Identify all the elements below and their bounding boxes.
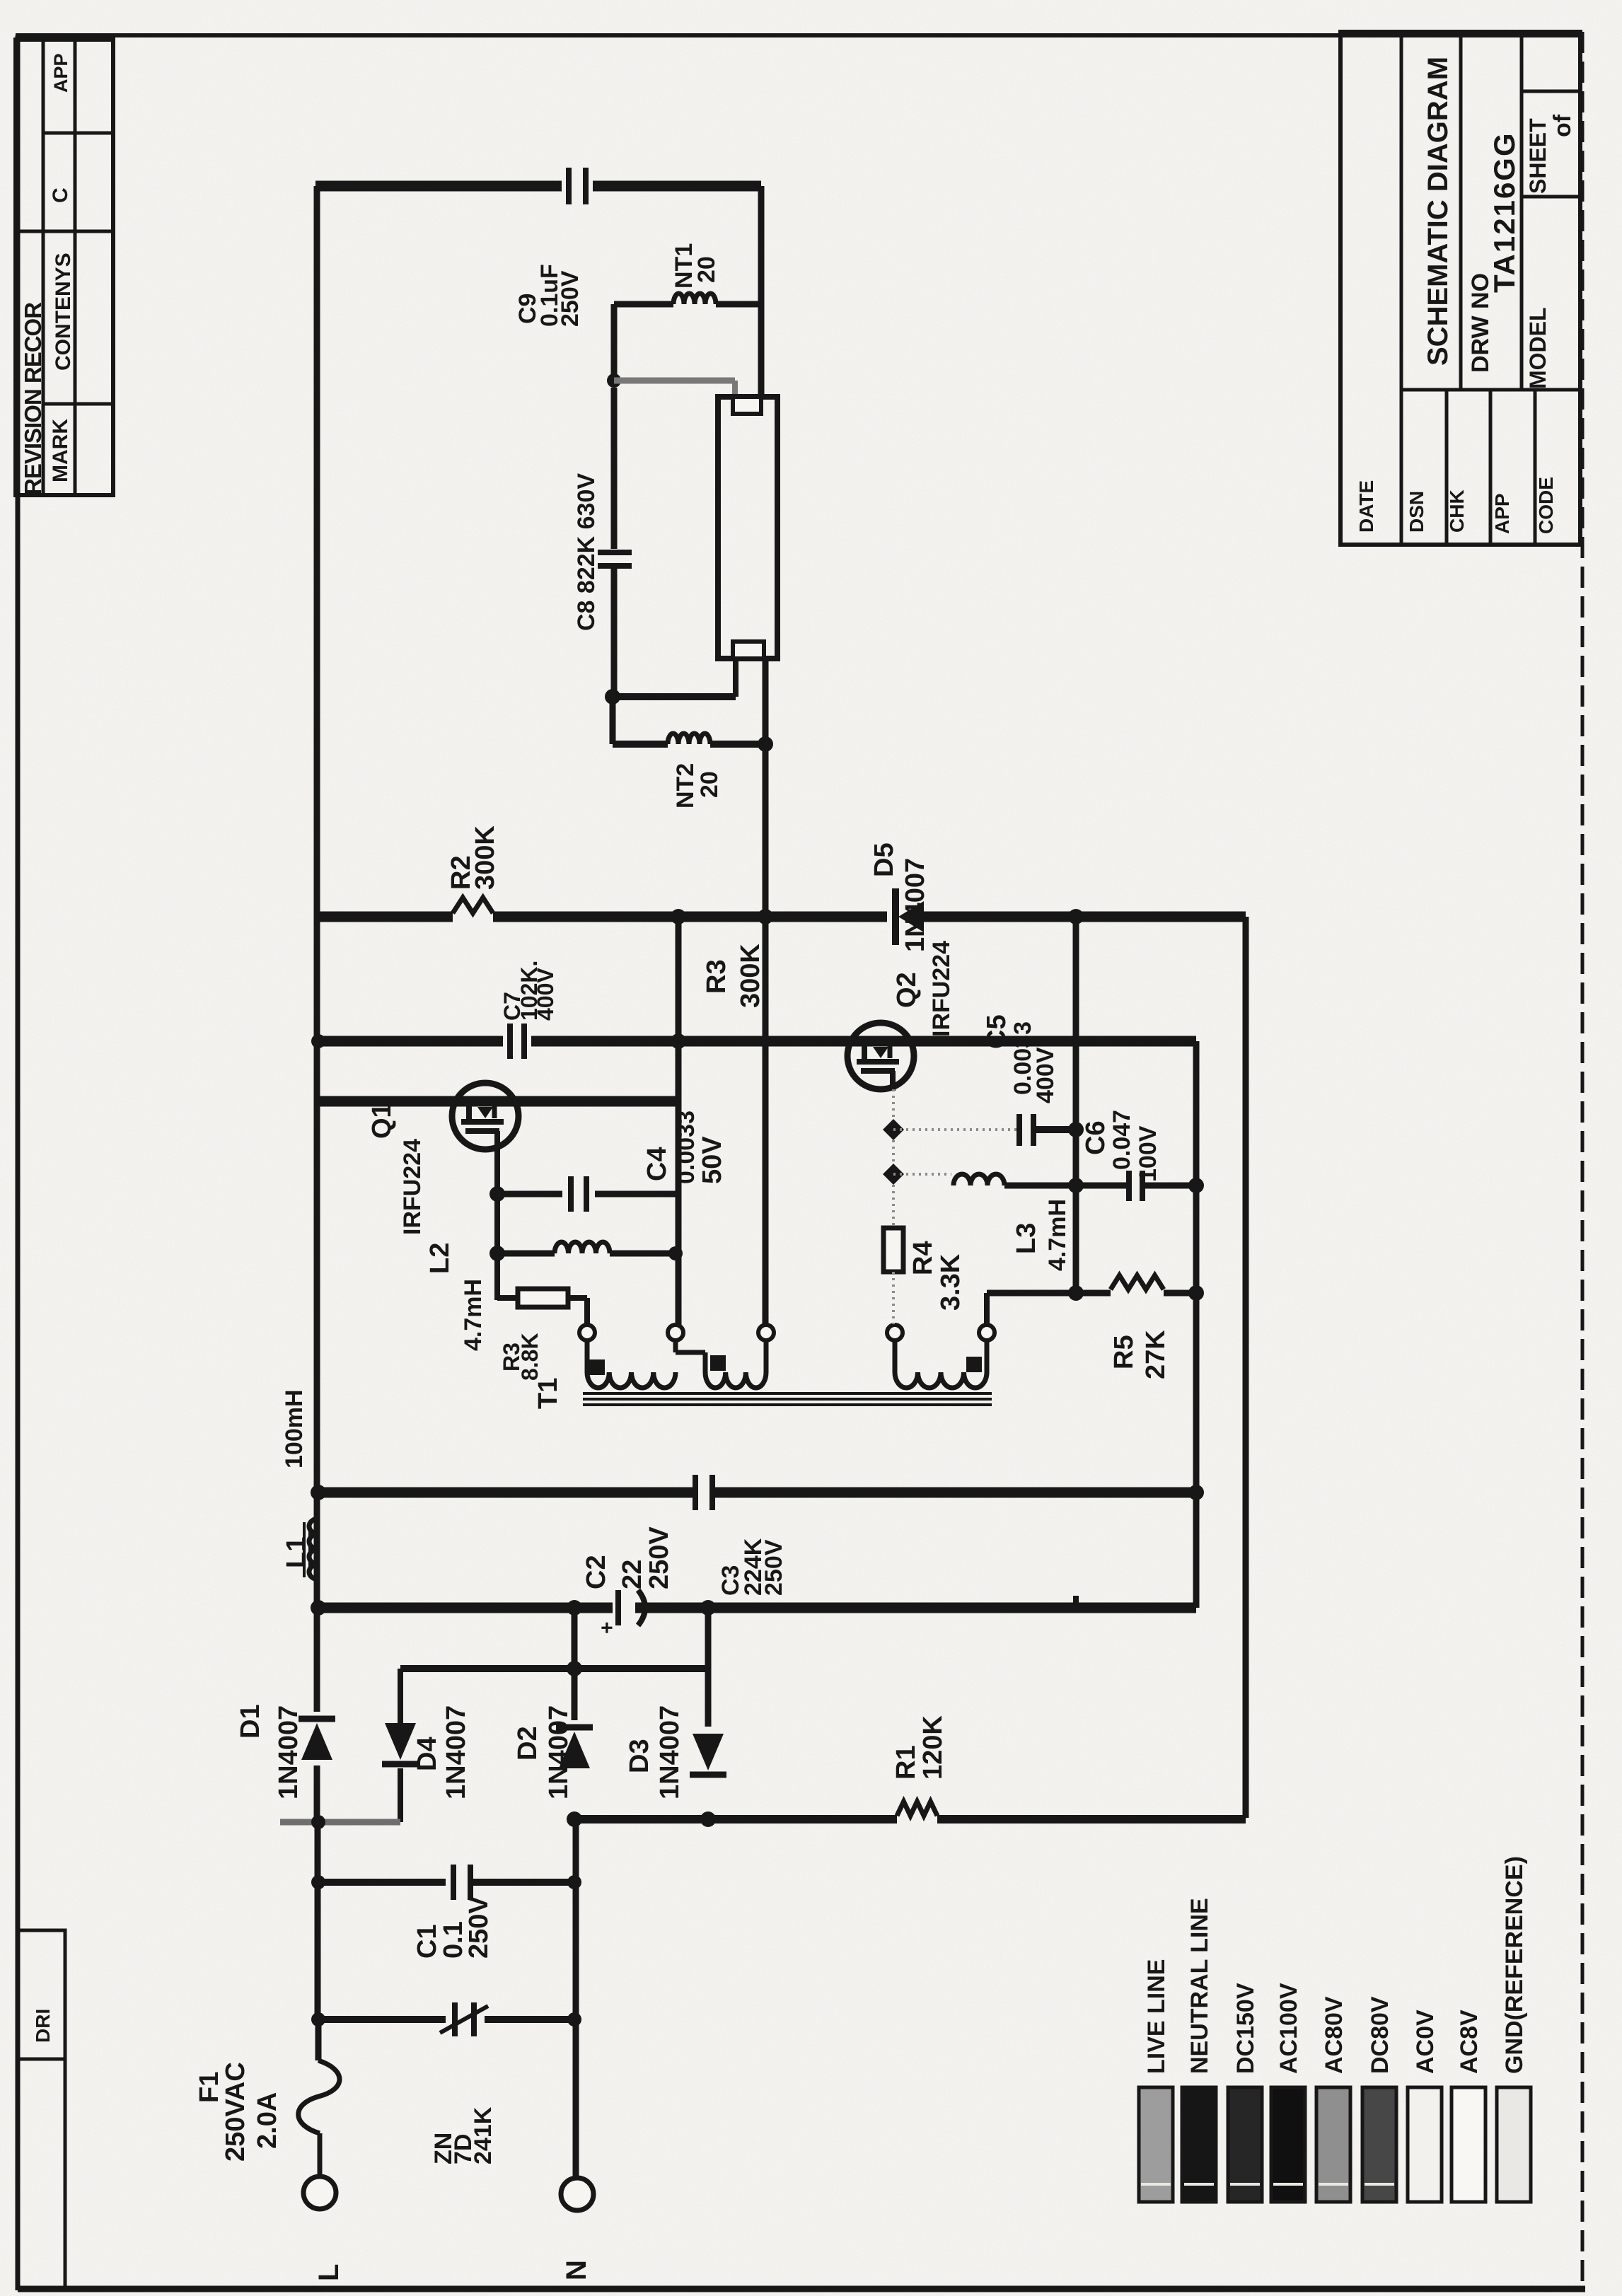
svg-text:1N4007: 1N4007 <box>441 1705 471 1799</box>
node Q1/C4 junction <box>490 1186 505 1202</box>
svg-text:27K: 27K <box>1141 1330 1171 1379</box>
revision table label MARK <box>49 419 72 482</box>
wire NT1 line right <box>716 301 761 308</box>
transformer T1 core <box>583 1393 992 1405</box>
svg-text:D4: D4 <box>412 1737 442 1771</box>
revision table divider row APP/C <box>43 132 113 135</box>
label N <box>561 2260 592 2280</box>
wire lamp top-left feed <box>614 381 735 400</box>
label NT1 20 <box>671 243 720 289</box>
wire NT2 line right <box>710 741 765 748</box>
wire NT2 line left <box>613 697 668 744</box>
node rail6 D2 junction <box>567 1811 582 1827</box>
node ZN right junction <box>567 2012 581 2027</box>
wire rail5 right segment <box>635 1603 1196 1613</box>
svg-text:APP: APP <box>50 53 71 93</box>
wire lamp bottom right drop <box>763 659 769 744</box>
svg-text:22: 22 <box>618 1560 647 1589</box>
label D4 1N4007 <box>412 1705 471 1799</box>
svg-text:L1: L1 <box>282 1537 311 1568</box>
svg-text:3.3K: 3.3K <box>936 1253 966 1311</box>
title block text of <box>1549 114 1576 137</box>
svg-text:IRFU224: IRFU224 <box>928 941 955 1037</box>
node C1 left junction <box>311 1875 325 1889</box>
wire top rail right of C9 <box>593 181 761 192</box>
wire C6 right <box>1142 1183 1196 1189</box>
title block text APP <box>1491 493 1513 534</box>
label C7 102K 400V <box>499 961 558 1021</box>
svg-text:IRFU224: IRFU224 <box>399 1139 426 1235</box>
wire Q2 gate dotted vertical <box>892 1089 895 1228</box>
legend bar DC150V <box>1228 2087 1262 2202</box>
capacitor C8 <box>598 552 632 566</box>
resistor R5 <box>1111 1275 1164 1289</box>
svg-text:0.0033: 0.0033 <box>673 1111 700 1184</box>
title block divider h lower <box>1401 388 1580 392</box>
wire rail4 right segment <box>712 1488 1196 1498</box>
node C1 right junction <box>567 1875 581 1889</box>
transformer T1 terminal 5 <box>979 1325 995 1340</box>
capacitor C4 <box>571 1176 586 1212</box>
svg-text:CHK: CHK <box>1446 489 1468 533</box>
resistor R3 8.8K box <box>518 1289 568 1307</box>
label T1 <box>533 1378 563 1409</box>
svg-text:250V: 250V <box>464 1896 494 1959</box>
svg-text:DATE: DATE <box>1355 480 1377 533</box>
inductor L1 <box>304 1519 318 1579</box>
capacitor C1 <box>453 1865 470 1900</box>
wire rail6 segment <box>569 1815 897 1824</box>
page right border <box>1581 32 1585 2289</box>
resistor R2 <box>453 898 493 913</box>
bottom-left vertical line <box>64 2059 67 2289</box>
svg-text:F1: F1 <box>195 2072 224 2103</box>
wire N rail <box>573 1819 579 2178</box>
svg-text:MARK: MARK <box>49 419 72 482</box>
svg-text:DSN: DSN <box>1406 491 1427 533</box>
wire lamp right vertical <box>758 186 765 397</box>
fuse F1 <box>299 2060 340 2133</box>
title block sheet cell top <box>1522 90 1580 93</box>
title block lower divider b <box>1489 390 1493 545</box>
wire left rail upper <box>314 186 320 1669</box>
wire above F1 <box>315 2019 322 2060</box>
svg-text:D2: D2 <box>513 1726 543 1761</box>
node L2 right junction <box>668 1246 683 1260</box>
svg-text:250V: 250V <box>760 1539 787 1596</box>
label C1 0.1 250V <box>412 1896 494 1959</box>
svg-text:250V: 250V <box>644 1526 674 1589</box>
legend label GND(REFERENCE) <box>1501 1856 1528 2074</box>
wire C4 line right <box>595 1191 678 1198</box>
title block text DSN <box>1406 491 1427 533</box>
title block text SHEET <box>1525 118 1551 194</box>
svg-text:AC80V: AC80V <box>1321 1996 1348 2074</box>
svg-text:2.0A: 2.0A <box>253 2092 282 2149</box>
legend label AC8V <box>1456 2010 1483 2074</box>
svg-text:Q2: Q2 <box>892 972 922 1008</box>
label R1 120K <box>891 1715 948 1780</box>
transformer T1 winding3 stub right <box>985 1340 990 1372</box>
svg-text:1N4007: 1N4007 <box>655 1705 685 1799</box>
node NT1/C8 junction <box>607 373 621 388</box>
node C5 bus junction <box>1068 1122 1084 1137</box>
wire R5 line right <box>1164 1290 1196 1297</box>
wire R3b to T1 <box>568 1298 587 1324</box>
title block divider v2 <box>1459 32 1463 390</box>
wire top rail left of C9 <box>315 181 562 192</box>
legend label AC80V <box>1321 1996 1348 2074</box>
lamp filament notch bottom <box>733 642 764 659</box>
transformer T1 terminal 3 <box>758 1325 774 1340</box>
capacitor C7 <box>510 1024 524 1059</box>
wire L3 to C6 <box>1004 1183 1128 1189</box>
label D2 1N4007 <box>513 1705 574 1799</box>
wire C1 line left <box>318 1879 446 1886</box>
lamp filament notch top <box>733 397 761 414</box>
transformer T1 winding3 <box>895 1372 987 1388</box>
node ZN left junction <box>311 2012 325 2027</box>
wire rail1 right segment <box>922 912 1246 922</box>
wire ZN line left <box>318 2016 446 2023</box>
svg-text:1N4007: 1N4007 <box>544 1705 574 1799</box>
bottom-left box text DRI <box>32 2009 54 2043</box>
svg-text:C5: C5 <box>982 1014 1012 1049</box>
svg-text:120K: 120K <box>918 1715 948 1780</box>
revision table divider col1 <box>42 40 45 495</box>
capacitor C2 electrolytic <box>596 1590 645 1634</box>
node left rail / D4-return junction <box>311 1815 325 1829</box>
svg-text:Q1: Q1 <box>367 1103 397 1139</box>
svg-text:D3: D3 <box>625 1739 654 1773</box>
title block text DATE <box>1355 480 1377 533</box>
svg-text:N: N <box>561 2260 592 2280</box>
wire NT1 line left <box>614 301 673 308</box>
label D3 1N4007 <box>625 1705 685 1799</box>
title block text DRW NO <box>1467 273 1494 373</box>
legend bar AC100V <box>1271 2087 1305 2202</box>
svg-text:L: L <box>313 2264 344 2281</box>
inductor L3 <box>954 1174 1004 1185</box>
node C6 inner-rail junction <box>1188 1178 1204 1193</box>
legend label AC100V <box>1275 1983 1302 2074</box>
label D5 1N4007 <box>869 842 930 952</box>
bottom-left box <box>18 1930 65 2059</box>
transformer T1 winding2 <box>705 1372 766 1388</box>
label C5 0.0033 400V <box>982 1014 1059 1103</box>
transistor Q2 <box>847 1023 914 1091</box>
wire D3 vertical upper <box>705 1608 712 1727</box>
node rail6 D3 junction <box>700 1811 716 1827</box>
label R2 300K <box>446 825 500 890</box>
capacitor C3 224K <box>695 1475 712 1510</box>
svg-text:T1: T1 <box>533 1378 563 1409</box>
page bottom border <box>18 2286 1585 2292</box>
node rail5 D3 junction <box>700 1600 716 1616</box>
transformer T1 polarity dot w1 <box>589 1359 605 1375</box>
node rail1/mid junction <box>758 909 773 924</box>
title block text CHK <box>1446 489 1468 533</box>
transformer T1 terminal 4 <box>887 1325 903 1340</box>
transformer T1 w2 jog <box>676 1352 705 1372</box>
inductor NT1 <box>673 294 716 304</box>
svg-text:300K: 300K <box>470 825 500 890</box>
transformer T1 winding1 stub left <box>585 1340 590 1372</box>
node bridge top D2 junction <box>567 1661 582 1676</box>
wire C8 lower <box>611 566 618 697</box>
svg-text:20: 20 <box>696 771 723 798</box>
node R5 inner-rail junction <box>1188 1285 1204 1301</box>
legend bar GND(REFERENCE) <box>1497 2087 1531 2202</box>
wire mid vertical lamp-to-T1 <box>763 744 769 1326</box>
wire C8 upper <box>611 388 618 549</box>
wire C4 line left <box>497 1191 562 1198</box>
page top border <box>16 33 1582 37</box>
svg-text:DC150V: DC150V <box>1232 1983 1259 2074</box>
svg-text:AC100V: AC100V <box>1275 1983 1302 2074</box>
terminal L circle <box>303 2176 336 2209</box>
wire left rail lower <box>315 1822 321 2023</box>
transformer T1 polarity dot w2 <box>710 1355 726 1371</box>
svg-text:L2: L2 <box>425 1243 455 1274</box>
svg-text:1N4007: 1N4007 <box>274 1705 303 1799</box>
node R5 bus junction <box>1068 1285 1084 1301</box>
wire rail2 left segment <box>315 1036 503 1047</box>
legend label AC0V <box>1412 2010 1439 2074</box>
wire R5 line left <box>987 1290 1111 1297</box>
title block text MODEL <box>1525 307 1551 389</box>
svg-text:C: C <box>49 187 72 203</box>
svg-text:NEUTRAL LINE: NEUTRAL LINE <box>1186 1898 1213 2074</box>
wire lamp bottom-left feed <box>613 659 736 697</box>
label C8 822K 630V <box>573 473 600 631</box>
node NT2 right junction <box>758 736 773 752</box>
legend bar DC80V <box>1362 2087 1396 2202</box>
svg-text:4.7mH: 4.7mH <box>1044 1199 1071 1271</box>
inductor L2 <box>555 1242 610 1253</box>
svg-text:APP: APP <box>1491 493 1513 534</box>
diode D3 <box>690 1734 726 1775</box>
wire rail6 right segment <box>937 1815 1246 1824</box>
wire rail1 left segment <box>315 912 453 922</box>
node rail2/R3 junction <box>671 1033 686 1049</box>
wire Q1 source vertical <box>494 1135 500 1300</box>
transformer T1 winding3 stub left <box>893 1340 898 1372</box>
node rail5 D2 junction <box>567 1600 582 1616</box>
transistor Q1 <box>452 1083 519 1151</box>
stub above bottom rail <box>1073 1596 1079 1608</box>
node Q2 gate diamond 1 <box>883 1119 904 1140</box>
node rail4 left junction <box>311 1485 326 1500</box>
label C2 22 250V <box>581 1526 674 1589</box>
label L3 4.7mH <box>1012 1199 1071 1271</box>
svg-text:CODE: CODE <box>1535 477 1557 534</box>
label L1 100mH <box>281 1389 311 1568</box>
svg-text:R1: R1 <box>891 1745 921 1780</box>
svg-text:300K: 300K <box>736 944 765 1008</box>
revision table label C <box>49 187 72 203</box>
node Q1/L2 junction <box>490 1246 505 1261</box>
svg-text:MODEL: MODEL <box>1525 307 1551 389</box>
diode D4 <box>382 1700 419 1822</box>
svg-text:100V: 100V <box>1135 1125 1162 1182</box>
node C8/lamp-bottom junction <box>605 689 620 705</box>
revision table label CONTENYS <box>52 253 75 371</box>
legend label DC80V <box>1367 1996 1394 2074</box>
label C4 0.0033 50V <box>642 1111 727 1184</box>
title block lower divider a <box>1445 390 1449 545</box>
title block sheet cell bottom <box>1522 195 1580 199</box>
transformer T1 terminal 1 <box>579 1325 595 1340</box>
label L <box>313 2264 344 2281</box>
wire L3 dotted segment <box>893 1173 951 1176</box>
revision table divider row C/CONTENYS <box>16 230 113 233</box>
svg-text:SHEET: SHEET <box>1525 118 1551 194</box>
wire C5 to vertical <box>1033 1126 1076 1133</box>
wire rail5 left segment <box>317 1603 613 1613</box>
svg-text:NT2: NT2 <box>672 763 699 808</box>
title block outer box <box>1340 32 1580 545</box>
wire D4-D3 top line <box>400 1665 708 1672</box>
title block text SCHEMATIC DIAGRAM <box>1423 57 1454 366</box>
svg-text:R5: R5 <box>1109 1335 1139 1369</box>
wire rail1 mid segment <box>493 912 887 922</box>
diode D5 <box>896 888 924 945</box>
node rail5 left junction <box>311 1600 326 1616</box>
label R3 8.8K <box>499 1333 543 1381</box>
label L2 4.7mH <box>425 1243 487 1351</box>
legend label NEUTRAL LINE <box>1186 1898 1213 2074</box>
svg-text:TA1216GG: TA1216GG <box>1488 132 1521 293</box>
revision table divider row CONTENYS/MARK <box>43 402 113 406</box>
wire R3 vertical <box>676 917 682 1326</box>
svg-text:100mH: 100mH <box>281 1389 308 1468</box>
legend bar AC0V <box>1408 2087 1442 2202</box>
node L3 bus junction <box>1068 1178 1084 1193</box>
svg-text:250VAC: 250VAC <box>221 2062 250 2162</box>
svg-text:R4: R4 <box>908 1241 938 1275</box>
svg-text:50V: 50V <box>697 1136 727 1184</box>
wire below F1 <box>318 2133 323 2177</box>
svg-text:8.8K: 8.8K <box>517 1333 543 1381</box>
varistor ZN <box>440 2002 488 2036</box>
revision table label APP <box>50 53 71 93</box>
svg-text:of: of <box>1549 114 1576 137</box>
label R5 27K <box>1109 1330 1171 1379</box>
svg-text:DRI: DRI <box>32 2009 54 2043</box>
label D1 1N4007 <box>236 1704 303 1799</box>
svg-text:1N4007: 1N4007 <box>900 858 930 952</box>
transformer T1 polarity dot w3 <box>966 1357 982 1372</box>
wire L2 line right <box>610 1251 678 1257</box>
title block divider v1 <box>1400 32 1403 545</box>
svg-text:GND(REFERENCE): GND(REFERENCE) <box>1501 1856 1528 2074</box>
svg-text:250V: 250V <box>557 270 584 327</box>
diode D1 <box>299 1669 335 1822</box>
legend bar LIVE LINE <box>1139 2087 1173 2202</box>
transformer T1 winding2 stub right <box>764 1340 769 1372</box>
legend bar AC8V <box>1452 2087 1485 2202</box>
capacitor C9 <box>569 168 586 204</box>
legend label LIVE LINE <box>1143 1959 1170 2074</box>
resistor R4 box <box>884 1228 903 1272</box>
wire C5 bus vertical <box>1073 917 1079 1293</box>
svg-text:400V: 400V <box>1032 1047 1059 1103</box>
title block text TA1216GG <box>1488 132 1521 293</box>
title block text CODE <box>1535 477 1557 534</box>
wire outer right rail <box>1243 917 1249 1818</box>
svg-text:AC8V: AC8V <box>1456 2010 1483 2074</box>
title block lower divider c <box>1534 390 1537 545</box>
svg-text:C4: C4 <box>642 1147 672 1181</box>
inductor NT2 <box>668 734 710 744</box>
transformer T1 winding1 <box>587 1372 676 1388</box>
svg-text:0.047: 0.047 <box>1108 1110 1135 1170</box>
revision table header REVISION RECORD <box>20 302 46 495</box>
label R3 300K <box>702 944 765 1008</box>
svg-text:REVISION RECOR: REVISION RECOR <box>20 302 46 495</box>
wire L2 line left <box>497 1251 555 1257</box>
wire ZN line right <box>485 2016 574 2023</box>
node rail1/C5 junction <box>1068 909 1084 924</box>
svg-text:C1: C1 <box>412 1924 442 1959</box>
node rail2 left end <box>311 1034 325 1048</box>
label C3 224K 250V <box>717 1538 787 1596</box>
wire R3b line <box>497 1295 518 1301</box>
label Q1 IRFU224 <box>367 1103 426 1235</box>
node rail1/R3 junction <box>671 909 686 924</box>
svg-text:+: + <box>596 1621 619 1634</box>
svg-text:D5: D5 <box>869 842 899 877</box>
wire R4 to T1 dotted <box>892 1272 895 1324</box>
svg-text:CONTENYS: CONTENYS <box>52 253 75 371</box>
svg-text:L3: L3 <box>1012 1223 1041 1254</box>
wire C5 dotted line <box>893 1128 1016 1131</box>
capacitor C6 <box>1129 1171 1142 1201</box>
svg-text:20: 20 <box>693 256 720 283</box>
capacitor C5 <box>1019 1114 1033 1146</box>
label C6 0.047 100V <box>1081 1110 1162 1182</box>
terminal N circle <box>561 2178 593 2210</box>
svg-text:241K: 241K <box>470 2106 497 2164</box>
svg-text:D1: D1 <box>236 1704 265 1739</box>
diode D2 <box>556 1727 593 1768</box>
node inner rail / rail4 junction <box>1188 1485 1204 1500</box>
label C9 0.1uF 250V <box>514 264 584 327</box>
legend label DC150V <box>1232 1983 1259 2074</box>
lamp tube outline <box>718 397 777 659</box>
svg-text:C6: C6 <box>1081 1120 1111 1155</box>
title block divider v3 <box>1520 32 1524 390</box>
wire D2 vertical upper <box>572 1608 578 1720</box>
wire rail3 <box>315 1096 678 1107</box>
legend bar AC80V <box>1316 2087 1350 2202</box>
legend bar NEUTRAL LINE <box>1182 2087 1216 2202</box>
transformer T1 terminal 2 <box>668 1325 683 1340</box>
label F1 250VAC 2.0A <box>195 2062 282 2162</box>
wire D4-bottom to left rail <box>280 1819 400 1826</box>
revision table divider col2 <box>74 40 77 495</box>
svg-text:AC0V: AC0V <box>1412 2010 1439 2074</box>
label ZN 7D 241K <box>430 2106 497 2164</box>
label NT2 20 <box>672 763 723 808</box>
wire T1 w5 up <box>984 1293 990 1326</box>
resistor R1 <box>897 1802 937 1816</box>
wire inner right rail <box>1193 1041 1200 1608</box>
svg-text:R3: R3 <box>702 959 731 994</box>
wire C1 line right <box>471 1879 574 1886</box>
svg-text:C2: C2 <box>581 1555 611 1589</box>
